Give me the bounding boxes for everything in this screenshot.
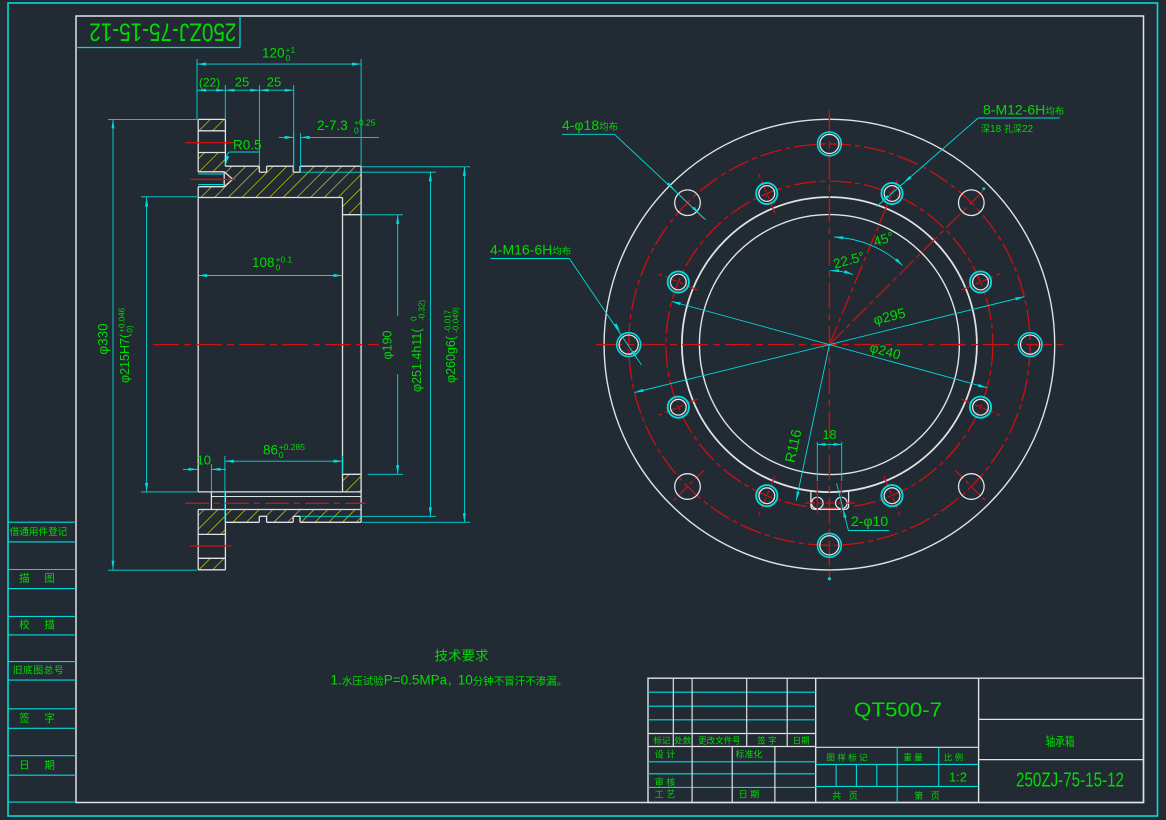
R0.5 leader xyxy=(230,151,259,153)
M12 thread lines xyxy=(198,173,224,175)
hole M16-6H at 270 deg xyxy=(818,533,842,557)
svg-text:120: 120 xyxy=(262,46,285,61)
svg-text:2-7.3: 2-7.3 xyxy=(317,118,348,133)
top-left part number box xyxy=(76,47,240,49)
hatch: lower body + flange xyxy=(198,510,361,535)
bore phi215 bottom edge xyxy=(198,491,361,493)
dim text phi215H7 xyxy=(118,307,135,383)
svg-text:1.水压试验P=0.5MPa，10分钟不冒汗不渗漏。: 1.水压试验P=0.5MPa，10分钟不冒汗不渗漏。 xyxy=(331,673,568,688)
hole M12-6H at 202.5 deg xyxy=(668,397,689,418)
svg-text:φ330: φ330 xyxy=(96,323,111,354)
M12 hole centerline xyxy=(190,178,236,180)
bolt circle phi295 (red) xyxy=(629,144,1030,545)
svg-text:R0.5: R0.5 xyxy=(233,138,262,153)
groove cutouts (2-7.3) top xyxy=(259,165,266,172)
dim 120 xyxy=(196,59,198,119)
svg-text:250ZJ-75-15-12: 250ZJ-75-15-12 xyxy=(1016,770,1124,792)
hole M12-6H at 22.5 deg xyxy=(970,271,991,292)
svg-text:φ215H7(: φ215H7( xyxy=(118,333,132,383)
phi190 bottom edge xyxy=(343,473,362,475)
hole M16-6H at 180 deg xyxy=(617,333,641,357)
title block: right section xyxy=(979,718,1144,720)
dim (22) 25 25 xyxy=(224,85,226,119)
title block: signature area xyxy=(648,761,816,763)
flange bottom edge xyxy=(198,569,225,571)
hole phi18 at 315 deg xyxy=(959,474,985,500)
title block: middle section QT500-7 xyxy=(978,678,980,802)
groove cutouts bottom xyxy=(259,516,266,523)
slot bottom line xyxy=(198,509,361,511)
main axis centerline xyxy=(153,344,379,346)
dim phi215H7 xyxy=(141,196,198,198)
svg-text:0: 0 xyxy=(279,450,284,460)
dim 2-7.3 xyxy=(293,133,295,170)
hole M16-6H at 90 deg xyxy=(818,132,842,156)
svg-text:日期: 日期 xyxy=(793,735,810,745)
dim phi260g6 xyxy=(361,166,470,168)
svg-text:0): 0) xyxy=(126,325,135,332)
svg-text:更改文件号: 更改文件号 xyxy=(698,735,741,745)
groove 2 outline xyxy=(292,166,294,172)
drain hole upper line xyxy=(211,496,361,498)
svg-text:比 例: 比 例 xyxy=(944,752,963,762)
body right face xyxy=(360,166,362,522)
flange left face xyxy=(197,119,199,171)
22.5 deg angle dim arc xyxy=(830,271,853,275)
svg-text:旧底图总号: 旧底图总号 xyxy=(13,664,64,677)
horizontal centerline xyxy=(596,344,1064,346)
dim text phi260g6 xyxy=(444,307,461,383)
M12 tapped hole outline xyxy=(198,171,224,173)
left margin signature column xyxy=(8,521,76,523)
hatch: bottom flange tab xyxy=(198,558,225,570)
svg-text:描 图: 描 图 xyxy=(19,572,58,585)
svg-text:签 字: 签 字 xyxy=(19,712,58,725)
svg-text:技术要求: 技术要求 xyxy=(435,649,489,664)
dim 108 xyxy=(198,275,342,277)
svg-text:处数: 处数 xyxy=(674,735,692,745)
svg-text:设 计: 设 计 xyxy=(655,749,676,760)
outer circle phi330 flange xyxy=(604,119,1055,570)
bottom slot outline xyxy=(811,491,849,510)
R116 leader xyxy=(796,345,829,501)
dim text phi251.4h11 xyxy=(410,300,427,392)
title block: revision table xyxy=(815,678,817,802)
flange right face through drain band xyxy=(224,492,226,510)
bottom groove 1 outline xyxy=(258,516,260,522)
bottom flange hole centerline xyxy=(190,545,232,547)
svg-text:工 艺: 工 艺 xyxy=(655,789,676,799)
dim text 2-7.3+0.25 xyxy=(317,118,376,136)
svg-text:10: 10 xyxy=(197,453,211,468)
hatch: top flange tab xyxy=(198,119,225,130)
body bottom face xyxy=(225,521,259,523)
dim 10 xyxy=(210,464,212,492)
dim phi240 diameter line xyxy=(672,302,987,388)
dim 18 (slot holes) xyxy=(816,442,818,481)
phi10 hole centerlines xyxy=(816,482,818,513)
svg-text:1:2: 1:2 xyxy=(949,770,967,785)
svg-text:0: 0 xyxy=(354,126,359,136)
bore circle phi215 xyxy=(682,197,977,492)
hole phi18 at 225 deg xyxy=(675,474,701,500)
svg-text:日 期: 日 期 xyxy=(19,759,58,771)
hole M16-6H at 0 deg xyxy=(1018,333,1042,357)
hole M12-6H at 337.5 deg xyxy=(970,397,991,418)
svg-text:250ZJ-75-15-12: 250ZJ-75-15-12 xyxy=(89,18,236,46)
svg-text:25: 25 xyxy=(235,75,249,90)
2x phi10 drain holes xyxy=(812,497,824,509)
bottom groove 2 outline xyxy=(292,516,294,522)
dim text 86+0.285 xyxy=(263,442,305,460)
45 deg radial centerline xyxy=(829,191,983,345)
svg-text:-0.32): -0.32) xyxy=(418,300,427,321)
bolt circle phi240 (red) xyxy=(666,181,993,508)
svg-text:2-φ10: 2-φ10 xyxy=(851,513,888,529)
flange right face xyxy=(224,119,226,166)
svg-text:审 核: 审 核 xyxy=(655,776,676,787)
svg-text:25: 25 xyxy=(267,75,281,90)
hole phi18 at 45 deg xyxy=(959,190,985,216)
flange tab line / M16 hole gap xyxy=(198,130,225,132)
svg-text:φ251.4h11(: φ251.4h11( xyxy=(410,328,424,392)
phi190 top edge xyxy=(343,214,362,216)
hole M12-6H at 67.5 deg xyxy=(881,183,902,204)
dim text 120+1/0 xyxy=(262,45,295,63)
svg-text:日 期: 日 期 xyxy=(739,789,760,799)
body top face xyxy=(225,165,259,167)
svg-text:18: 18 xyxy=(823,428,837,442)
svg-text:108: 108 xyxy=(252,255,275,270)
title block xyxy=(648,678,1144,802)
svg-text:QT500-7: QT500-7 xyxy=(854,699,942,722)
bottom flange hole gap lines xyxy=(198,533,225,535)
bore shoulder silhouette xyxy=(342,198,344,492)
svg-text:轴承箱: 轴承箱 xyxy=(1046,734,1075,749)
svg-text:深18 孔深22: 深18 孔深22 xyxy=(981,124,1033,135)
endpoint dots xyxy=(828,577,831,580)
45 deg angle dim arc xyxy=(834,237,903,266)
svg-text:φ190: φ190 xyxy=(381,330,395,359)
svg-text:共 页: 共 页 xyxy=(832,791,858,801)
hole M12-6H at 247.5 deg xyxy=(756,485,777,506)
67.5 deg radial centerline xyxy=(829,180,897,345)
groove 1 outline xyxy=(258,166,260,172)
svg-text:-0.049): -0.049) xyxy=(452,307,461,333)
M16 flange hole centerline xyxy=(185,142,235,144)
M12 tapped hole cutout xyxy=(198,172,233,187)
svg-text:标记: 标记 xyxy=(653,735,671,745)
drain hole centerline xyxy=(185,502,366,504)
vertical centerline xyxy=(828,111,830,579)
hole phi18 at 135 deg xyxy=(675,190,701,216)
dim phi251.4h11 xyxy=(300,171,436,173)
svg-text:校 描: 校 描 xyxy=(19,618,58,631)
svg-text:图 样 标 记: 图 样 标 记 xyxy=(826,752,868,762)
dim phi330 xyxy=(108,118,197,120)
svg-text:(22): (22) xyxy=(199,76,220,90)
bore phi215 top edge xyxy=(198,197,342,199)
svg-text:0: 0 xyxy=(276,263,281,273)
dim phi295 diameter line xyxy=(635,297,1025,393)
dim phi190 xyxy=(361,214,403,216)
bore circle phi190 xyxy=(699,215,959,475)
svg-text:重 量: 重 量 xyxy=(903,752,923,762)
svg-text:第 页: 第 页 xyxy=(914,790,940,801)
dim 86 xyxy=(224,456,226,522)
hole M12-6H at 157.5 deg xyxy=(668,271,689,292)
hole M12-6H at 112.5 deg xyxy=(756,183,777,204)
hatch: lower right block xyxy=(343,474,362,492)
hole M12-6H at 292.5 deg xyxy=(881,485,902,506)
svg-text:86: 86 xyxy=(263,443,278,458)
radial centerlines through holes xyxy=(671,186,704,219)
dim text 108+0.1 xyxy=(252,255,293,273)
flange top edge xyxy=(198,118,225,120)
svg-text:标准化: 标准化 xyxy=(735,749,762,760)
svg-text:0: 0 xyxy=(286,53,291,63)
hatch: upper body + flange xyxy=(198,153,361,215)
svg-text:φ260g6(: φ260g6( xyxy=(444,335,458,383)
svg-text:借通用件登记: 借通用件登记 xyxy=(10,526,68,538)
slot depth wall xyxy=(210,492,212,510)
svg-text:签 字: 签 字 xyxy=(757,735,776,745)
